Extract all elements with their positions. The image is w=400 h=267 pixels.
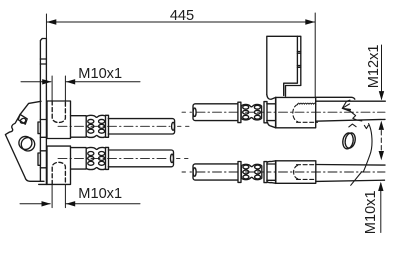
- bracket strip edge view: [40, 39, 46, 185]
- upper right boot: [238, 102, 267, 123]
- dimension 445 line: [47, 19, 315, 25]
- lower right nut: [268, 161, 316, 184]
- extension line left of 445: [45, 14, 47, 39]
- upper left boot: [86, 115, 108, 137]
- centerline trail dashes lower right: [182, 171, 192, 173]
- upper left neck: [71, 116, 87, 138]
- centerline lower left hose: [58, 157, 169, 159]
- lower right hose: [193, 164, 238, 180]
- centerline trail dashes lower left: [177, 157, 192, 159]
- svg-text:445: 445: [170, 8, 194, 24]
- upper right pipe: [316, 97, 386, 121]
- dimension M10x1 bottom: [20, 185, 140, 208]
- centerline trail dashes upper right: [182, 111, 192, 113]
- bracket tab: [18, 114, 27, 124]
- dimension M10x1 right: [378, 182, 383, 233]
- upper right neck: [267, 104, 276, 121]
- flag bracket: [267, 36, 301, 96]
- bracket large hole: [21, 138, 34, 151]
- broken-out plate with oval hole: [342, 100, 372, 185]
- upper right hose: [193, 104, 238, 121]
- upper right nut thread break line: [298, 103, 316, 104]
- lower left boot: [86, 147, 108, 169]
- lower left hose: [108, 150, 173, 167]
- lower left fitting nut: [39, 146, 71, 184]
- stud block upper behind strip: [38, 122, 40, 134]
- lower right nut thread dashed: [294, 165, 316, 180]
- upper left hose: [108, 119, 174, 134]
- gap dimension dashed: [379, 131, 384, 161]
- oval hole in plate: [342, 132, 357, 150]
- svg-text:M10x1: M10x1: [363, 190, 379, 234]
- extension line right of 445: [314, 13, 316, 97]
- centerline trail dashes upper left: [178, 125, 192, 127]
- stud block lower behind strip: [38, 153, 40, 165]
- centerline lower right: [196, 171, 385, 173]
- centerline upper left hose: [58, 125, 170, 127]
- dimension M10x1 top: [21, 76, 140, 101]
- dimension M12x1: [379, 45, 385, 130]
- centerline upper right: [196, 111, 385, 113]
- left mounting bracket angled view: [5, 101, 44, 181]
- lower left neck: [71, 148, 87, 170]
- svg-text:M10x1: M10x1: [78, 186, 122, 202]
- upper right nut thread dashed: [293, 105, 318, 123]
- bracket large hole inner edge: [19, 136, 32, 149]
- upper left fitting nut: [47, 101, 71, 139]
- upper right nut: [267, 95, 316, 128]
- lower right neck: [267, 164, 276, 180]
- lower right boot: [238, 162, 267, 183]
- svg-text:M10x1: M10x1: [78, 66, 122, 82]
- bracket tab hole: [19, 117, 26, 124]
- svg-text:M12x1: M12x1: [366, 44, 382, 88]
- lower right pipe: [316, 165, 385, 182]
